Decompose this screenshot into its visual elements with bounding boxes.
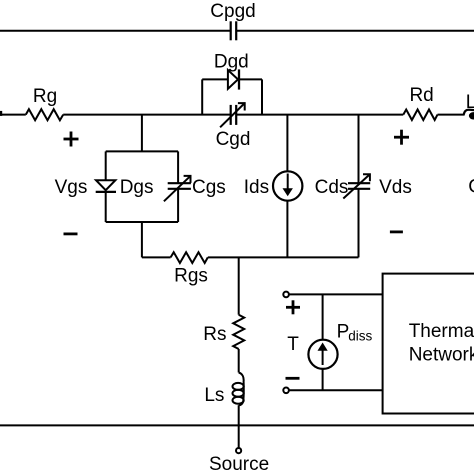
- svg-text:diss: diss: [348, 329, 372, 344]
- svg-text:Vgs: Vgs: [55, 177, 88, 198]
- wire Ls to rail: [238, 405, 240, 425]
- wire gate to Cgd: [63, 114, 231, 116]
- svg-text:Ld: Ld: [466, 92, 474, 113]
- wire Pdiss bottom: [322, 369, 324, 391]
- capacitor Cgd plates: [231, 105, 237, 125]
- diode Dgs: [96, 180, 115, 190]
- svg-text:Cpgd: Cpgd: [210, 1, 255, 22]
- wire Cds branch bottom: [358, 189, 360, 258]
- annotation plus Vgs: [64, 132, 79, 147]
- wire Ids branch bottom: [286, 201, 288, 258]
- svg-text:Source: Source: [209, 454, 269, 474]
- wire source terminal stub: [238, 425, 240, 448]
- svg-text:Cds: Cds: [315, 177, 349, 198]
- wire box bottom feed: [141, 222, 143, 257]
- wire box left lower: [105, 192, 107, 222]
- capacitor Cgd arrow: [220, 103, 245, 127]
- thermal network box: [383, 274, 474, 414]
- wire Cds branch top: [358, 115, 360, 184]
- wire Dgd branch top left: [202, 78, 228, 80]
- wire Ids branch top: [286, 115, 288, 171]
- wire thermal bottom: [289, 389, 383, 391]
- wire box left upper: [105, 151, 107, 180]
- svg-text:Dgd: Dgd: [214, 51, 249, 72]
- svg-text:Vds: Vds: [379, 177, 412, 198]
- svg-text:Rs: Rs: [203, 324, 226, 345]
- annotation minus Vgs: [64, 232, 78, 235]
- wire source line right: [208, 256, 359, 258]
- resistor Rd: [403, 110, 437, 121]
- svg-text:Rd: Rd: [409, 85, 433, 106]
- wire Dgd branch left vertical: [201, 79, 203, 114]
- wire thermal top: [289, 293, 383, 295]
- svg-text:T: T: [287, 334, 299, 355]
- svg-text:Thermal: Thermal: [409, 321, 474, 342]
- node source terminal: [236, 448, 241, 453]
- wire Pdiss top: [322, 294, 324, 339]
- inductor Lg remnant at left edge: [0, 111, 2, 116]
- wire Rd to Ld: [438, 114, 465, 116]
- wire Dgd branch top right: [239, 78, 262, 80]
- annotation plus T: [286, 300, 300, 314]
- svg-text:Ls: Ls: [204, 385, 224, 406]
- wire bottom rail: [0, 424, 474, 426]
- svg-text:Ids: Ids: [244, 177, 269, 198]
- capacitor Cgs plates: [168, 183, 191, 189]
- wire top rail left: [0, 30, 231, 32]
- wire Rs branch top: [238, 257, 240, 314]
- wire source line left: [142, 256, 171, 258]
- wire drain line: [236, 114, 403, 116]
- annotation minus Vds: [390, 230, 403, 233]
- svg-text:Network: Network: [409, 344, 474, 365]
- svg-text:Cgd: Cgd: [216, 129, 251, 150]
- current source Ids: [273, 171, 302, 200]
- wire top rail right: [236, 30, 474, 32]
- node Vgs box bottom edge: [106, 221, 178, 223]
- capacitor Cpgd: [231, 21, 237, 40]
- annotation plus Vds: [394, 130, 409, 145]
- svg-text:Rg: Rg: [33, 86, 57, 107]
- capacitor Cds arrow: [343, 174, 370, 198]
- wire Dgd branch right vertical: [261, 79, 263, 114]
- inductor Ld partial: [464, 110, 474, 115]
- svg-text:Dgs: Dgs: [120, 177, 154, 198]
- wire gate lead: [0, 114, 26, 116]
- wire Rs to Ls: [238, 349, 240, 373]
- current source Pdiss: [308, 340, 337, 369]
- wire box right lower: [177, 189, 179, 222]
- resistor Rs: [233, 315, 244, 349]
- svg-text:Cgs: Cgs: [192, 177, 226, 198]
- annotation minus T: [286, 377, 300, 380]
- node thermal terminal bottom: [283, 388, 289, 394]
- capacitor Cds plates: [348, 183, 370, 189]
- wire box right upper: [177, 151, 179, 183]
- resistor Rgs: [171, 252, 208, 263]
- svg-text:Rgs: Rgs: [174, 266, 208, 287]
- wire gate node down to Vgs box: [141, 115, 143, 152]
- resistor Rg: [26, 109, 63, 120]
- svg-text:Cpd: Cpd: [468, 177, 474, 198]
- diode Dgd: [228, 70, 238, 89]
- capacitor Cgs arrow: [164, 176, 191, 202]
- inductor Ls: [239, 373, 244, 406]
- node thermal terminal top: [283, 292, 289, 298]
- node Vgs box top edge: [106, 150, 178, 152]
